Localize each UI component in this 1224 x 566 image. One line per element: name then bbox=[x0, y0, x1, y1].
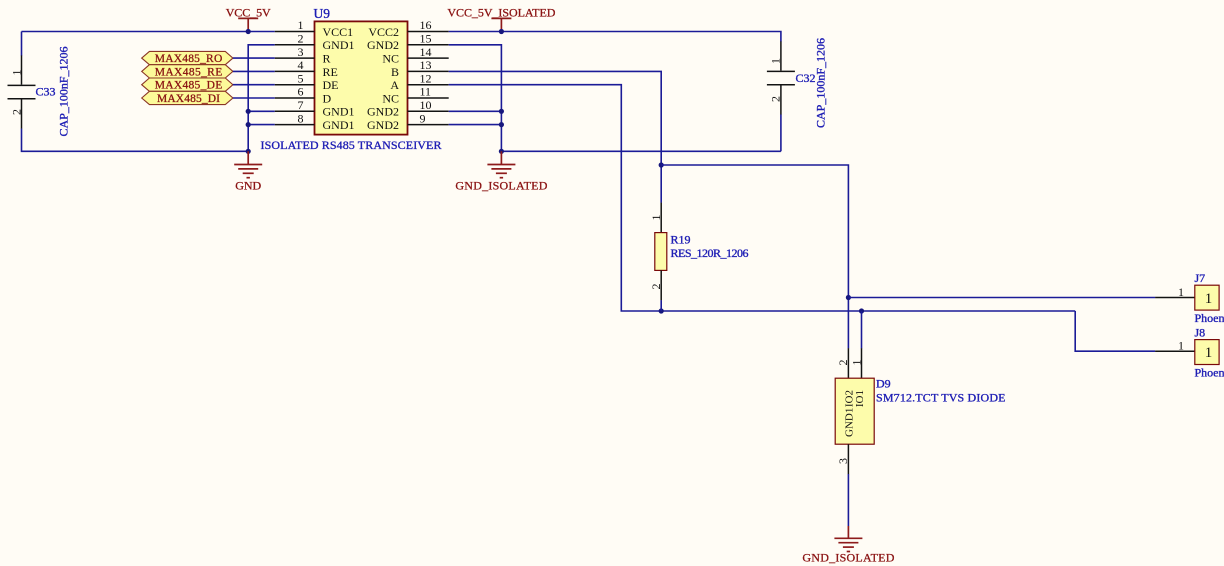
wire top from C33 pin1 to U9 pin1 bbox=[22, 31, 275, 33]
svg-text:NC: NC bbox=[382, 91, 399, 105]
svg-text:VCC1: VCC1 bbox=[323, 25, 354, 39]
wire J7 (B net to connector J7) bbox=[848, 297, 1155, 299]
svg-text:RE: RE bbox=[323, 65, 338, 79]
svg-text:GND_ISOLATED: GND_ISOLATED bbox=[802, 551, 894, 565]
svg-text:2: 2 bbox=[769, 96, 783, 102]
port MAX485_DI bbox=[142, 91, 233, 105]
svg-text:GND2: GND2 bbox=[367, 105, 399, 119]
capacitor C32 bbox=[767, 41, 795, 114]
svg-text:MAX485_DE: MAX485_DE bbox=[155, 80, 223, 92]
svg-text:4: 4 bbox=[298, 58, 304, 72]
svg-text:SM712.TCT TVS DIODE: SM712.TCT TVS DIODE bbox=[876, 391, 1006, 405]
svg-text:GND1: GND1 bbox=[323, 105, 355, 119]
wire U9 pin9 stub bbox=[449, 124, 502, 126]
U9 pin 2 stub bbox=[275, 44, 315, 46]
svg-text:NC: NC bbox=[382, 52, 399, 66]
svg-text:1: 1 bbox=[1178, 285, 1184, 299]
svg-text:VCC_5V_ISOLATED: VCC_5V_ISOLATED bbox=[447, 5, 555, 19]
svg-text:MAX485_RE: MAX485_RE bbox=[155, 66, 223, 78]
wire C33 pin2 to GND rail bbox=[22, 129, 249, 152]
U9 pin 13 stub bbox=[408, 70, 449, 72]
svg-text:1: 1 bbox=[649, 215, 663, 221]
junction B vertical / B horizontal bbox=[659, 162, 664, 167]
svg-text:3: 3 bbox=[836, 458, 850, 464]
svg-text:7: 7 bbox=[298, 98, 304, 112]
ground GND_ISOLATED symbol (bottom) bbox=[834, 526, 862, 552]
svg-text:C32: C32 bbox=[796, 71, 816, 85]
svg-text:GND1: GND1 bbox=[323, 38, 355, 52]
svg-text:J8: J8 bbox=[1195, 325, 1206, 339]
diode D9 pin1 stub bbox=[861, 348, 863, 378]
svg-text:GND2: GND2 bbox=[367, 118, 399, 132]
svg-text:10: 10 bbox=[420, 98, 432, 112]
capacitor C33 bbox=[8, 55, 36, 128]
svg-text:2: 2 bbox=[836, 360, 850, 366]
resistor R19 pin2 stub bbox=[660, 270, 662, 300]
U9 pin 9 stub bbox=[408, 124, 449, 126]
ground GND symbol bbox=[234, 151, 262, 177]
power VCC_5V bbox=[238, 18, 258, 31]
svg-text:VCC2: VCC2 bbox=[368, 25, 399, 39]
junction D9 pin1 / A wire bbox=[859, 308, 864, 313]
svg-text:1: 1 bbox=[1178, 339, 1184, 353]
connector J8 pin stub bbox=[1155, 350, 1195, 352]
wire R19 pin2 to A wire bbox=[660, 300, 662, 311]
svg-text:13: 13 bbox=[420, 58, 432, 72]
svg-text:Phoenix_1x1: Phoenix_1x1 bbox=[1195, 311, 1224, 325]
wire bottom right to C32 pin2 bbox=[501, 150, 781, 152]
U9 pin 3 stub bbox=[275, 57, 315, 59]
svg-text:GND: GND bbox=[235, 178, 261, 192]
U9 pin 5 stub bbox=[275, 84, 315, 86]
diode D9 pin3 stub bbox=[847, 444, 849, 474]
U9 pin 14 stub bbox=[408, 57, 449, 59]
svg-text:C33: C33 bbox=[36, 85, 56, 99]
svg-text:DE: DE bbox=[323, 78, 339, 92]
svg-text:GND1: GND1 bbox=[323, 118, 355, 132]
op-amp U9 body (isolated RS485 transceiver) bbox=[315, 21, 408, 134]
connector J8 body bbox=[1195, 340, 1219, 365]
wire C32 pin2 down to bottom wire bbox=[780, 115, 782, 152]
wire U9 pin15 to GND_ISOLATED vertical bbox=[449, 45, 502, 152]
svg-text:ISOLATED RS485 TRANSCEIVER: ISOLATED RS485 TRANSCEIVER bbox=[261, 138, 442, 152]
wire D9 pin3 to GND_ISOLATED bbox=[847, 474, 849, 526]
wire U9 pin8 stub to GND vertical bbox=[248, 124, 275, 126]
svg-text:1: 1 bbox=[9, 70, 23, 76]
power VCC_5V_ISOLATED bbox=[491, 18, 511, 31]
svg-text:1: 1 bbox=[1205, 345, 1213, 361]
U9 pin 15 stub bbox=[408, 44, 449, 46]
junction pin8/GND vertical bbox=[246, 122, 251, 127]
svg-text:11: 11 bbox=[420, 85, 432, 99]
junction C33/GND vertical bbox=[246, 149, 251, 154]
connector J7 pin stub bbox=[1155, 297, 1195, 299]
svg-text:RES_120R_1206: RES_120R_1206 bbox=[671, 246, 749, 260]
ground GND_ISOLATED symbol (right) bbox=[487, 151, 515, 177]
diode D9 pin2 stub bbox=[847, 348, 849, 378]
wire D9 pin1 vertical bbox=[861, 311, 863, 348]
junction B column / J7 wire bbox=[846, 295, 851, 300]
svg-text:IO1: IO1 bbox=[854, 390, 866, 407]
svg-text:R19: R19 bbox=[671, 233, 691, 247]
wire U9 pin10 stub bbox=[449, 110, 502, 112]
svg-text:GND2: GND2 bbox=[367, 38, 399, 52]
svg-text:6: 6 bbox=[298, 85, 304, 99]
resistor R19 body bbox=[655, 233, 667, 271]
junction VCC_5V / top wire bbox=[246, 29, 251, 34]
wire B horizontal to D9 pin2 column bbox=[661, 165, 848, 348]
svg-text:J7: J7 bbox=[1195, 271, 1206, 285]
port MAX485_RE bbox=[142, 65, 233, 79]
junction R19 pin2 / A wire bbox=[659, 308, 664, 313]
U9 pin 10 stub bbox=[408, 110, 449, 112]
svg-text:GND1: GND1 bbox=[844, 408, 856, 437]
svg-text:U9: U9 bbox=[314, 6, 331, 21]
svg-text:D: D bbox=[323, 91, 332, 105]
resistor R19 pin1 stub bbox=[660, 203, 662, 233]
svg-text:1: 1 bbox=[1205, 291, 1213, 307]
wire MAX485_RO to U9 pin3 bbox=[233, 57, 275, 59]
svg-text:MAX485_RO: MAX485_RO bbox=[155, 53, 223, 65]
svg-text:A: A bbox=[390, 78, 399, 92]
svg-text:9: 9 bbox=[420, 111, 426, 125]
U9 pin 12 stub bbox=[408, 84, 449, 86]
wire C33 pin1 vertical bbox=[21, 32, 23, 56]
wire U9 pin12 (A) right, down and across bbox=[449, 85, 1075, 311]
svg-text:3: 3 bbox=[298, 45, 304, 59]
wire U9 pin13 (B) right and down bbox=[449, 71, 662, 202]
svg-text:B: B bbox=[391, 65, 399, 79]
svg-text:CAP_100nF_1206: CAP_100nF_1206 bbox=[57, 47, 71, 137]
port MAX485_DE bbox=[142, 78, 233, 92]
wire A net down to J8 row bbox=[1075, 311, 1155, 351]
port MAX485_RO bbox=[142, 51, 233, 65]
svg-text:GND_ISOLATED: GND_ISOLATED bbox=[455, 178, 547, 192]
junction pin7/GND vertical bbox=[246, 109, 251, 114]
svg-text:R: R bbox=[323, 52, 331, 66]
U9 pin 6 stub bbox=[275, 97, 315, 99]
junction GND_ISOLATED vertical / bottom wire bbox=[499, 149, 504, 154]
U9 pin 16 stub bbox=[408, 31, 449, 33]
junction pin10 / GND_ISOLATED vertical bbox=[499, 109, 504, 114]
diode D9 body (TVS) bbox=[835, 378, 874, 444]
U9 pin 7 stub bbox=[275, 110, 315, 112]
wire MAX485_DE to U9 pin5 bbox=[233, 84, 275, 86]
wire U9 pin7 stub to GND vertical bbox=[248, 110, 275, 112]
wire MAX485_RE to U9 pin4 bbox=[233, 70, 275, 72]
svg-text:16: 16 bbox=[420, 18, 432, 32]
junction pin9 / GND_ISOLATED vertical bbox=[499, 122, 504, 127]
svg-text:D9: D9 bbox=[876, 377, 891, 391]
svg-text:1: 1 bbox=[769, 58, 783, 64]
U9 pin 8 stub bbox=[275, 124, 315, 126]
U9 pin 11 stub bbox=[408, 97, 449, 99]
svg-text:2: 2 bbox=[9, 109, 23, 115]
junction VCC_5V_ISOLATED / pin16 wire bbox=[499, 29, 504, 34]
svg-text:1: 1 bbox=[298, 18, 304, 32]
wire MAX485_DI to U9 pin6 bbox=[233, 97, 275, 99]
svg-text:Phoenix_1x1: Phoenix_1x1 bbox=[1195, 366, 1224, 380]
U9 pin 4 stub bbox=[275, 70, 315, 72]
svg-text:14: 14 bbox=[420, 45, 432, 59]
svg-text:1: 1 bbox=[849, 360, 863, 366]
U9 pin 1 stub bbox=[275, 31, 315, 33]
svg-text:2: 2 bbox=[298, 32, 304, 46]
svg-text:15: 15 bbox=[420, 32, 432, 46]
svg-text:12: 12 bbox=[420, 71, 432, 85]
wire U9 pin16 to C32 pin1 (VCC_5V_ISOLATED net) bbox=[449, 32, 781, 42]
svg-text:VCC_5V: VCC_5V bbox=[226, 6, 271, 20]
svg-text:MAX485_DI: MAX485_DI bbox=[157, 93, 220, 105]
svg-text:CAP_100nF_1206: CAP_100nF_1206 bbox=[814, 38, 828, 128]
connector J7 body bbox=[1195, 285, 1219, 310]
wire U9 pin2 to GND vertical bbox=[248, 45, 275, 152]
svg-text:8: 8 bbox=[298, 111, 304, 125]
svg-text:5: 5 bbox=[298, 71, 304, 85]
